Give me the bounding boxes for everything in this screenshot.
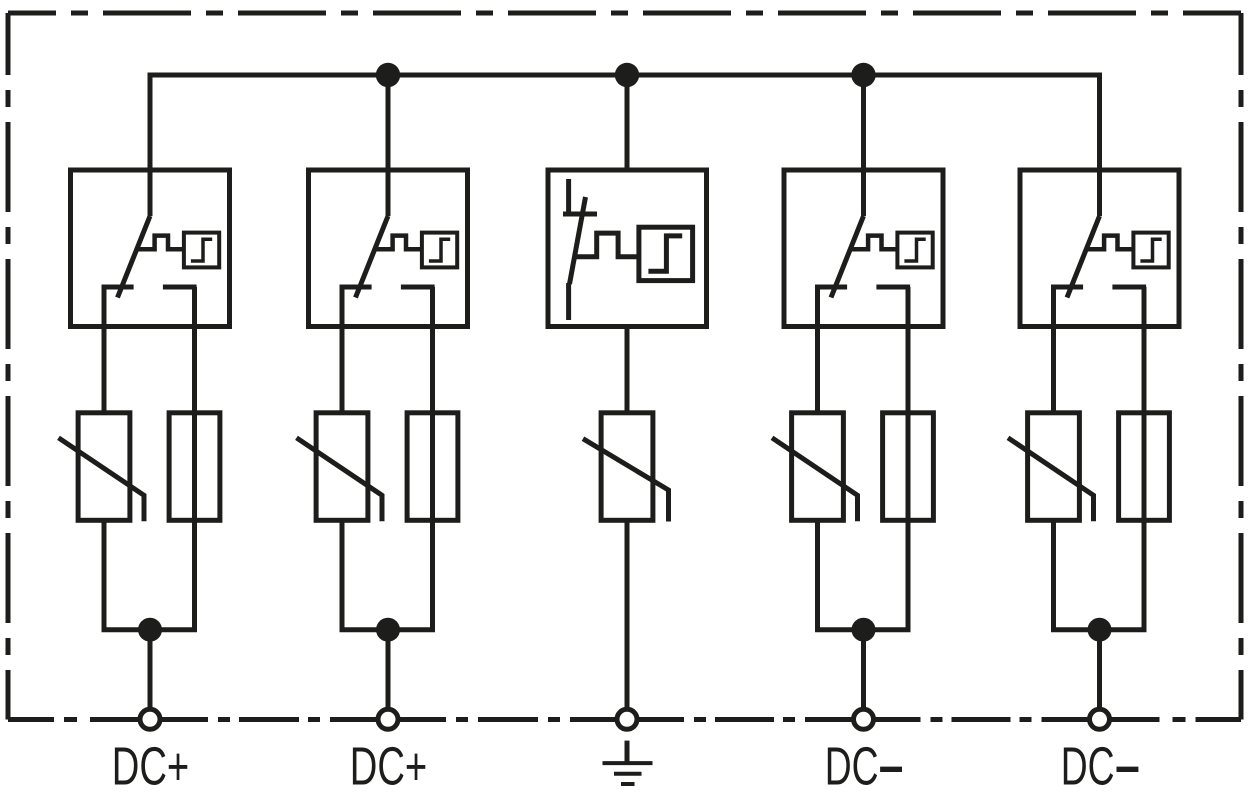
svg-text:DC+: DC+: [112, 736, 190, 796]
svg-text:DC: DC: [1061, 736, 1115, 796]
svg-text:DC: DC: [825, 736, 879, 796]
svg-text:DC+: DC+: [350, 736, 428, 796]
